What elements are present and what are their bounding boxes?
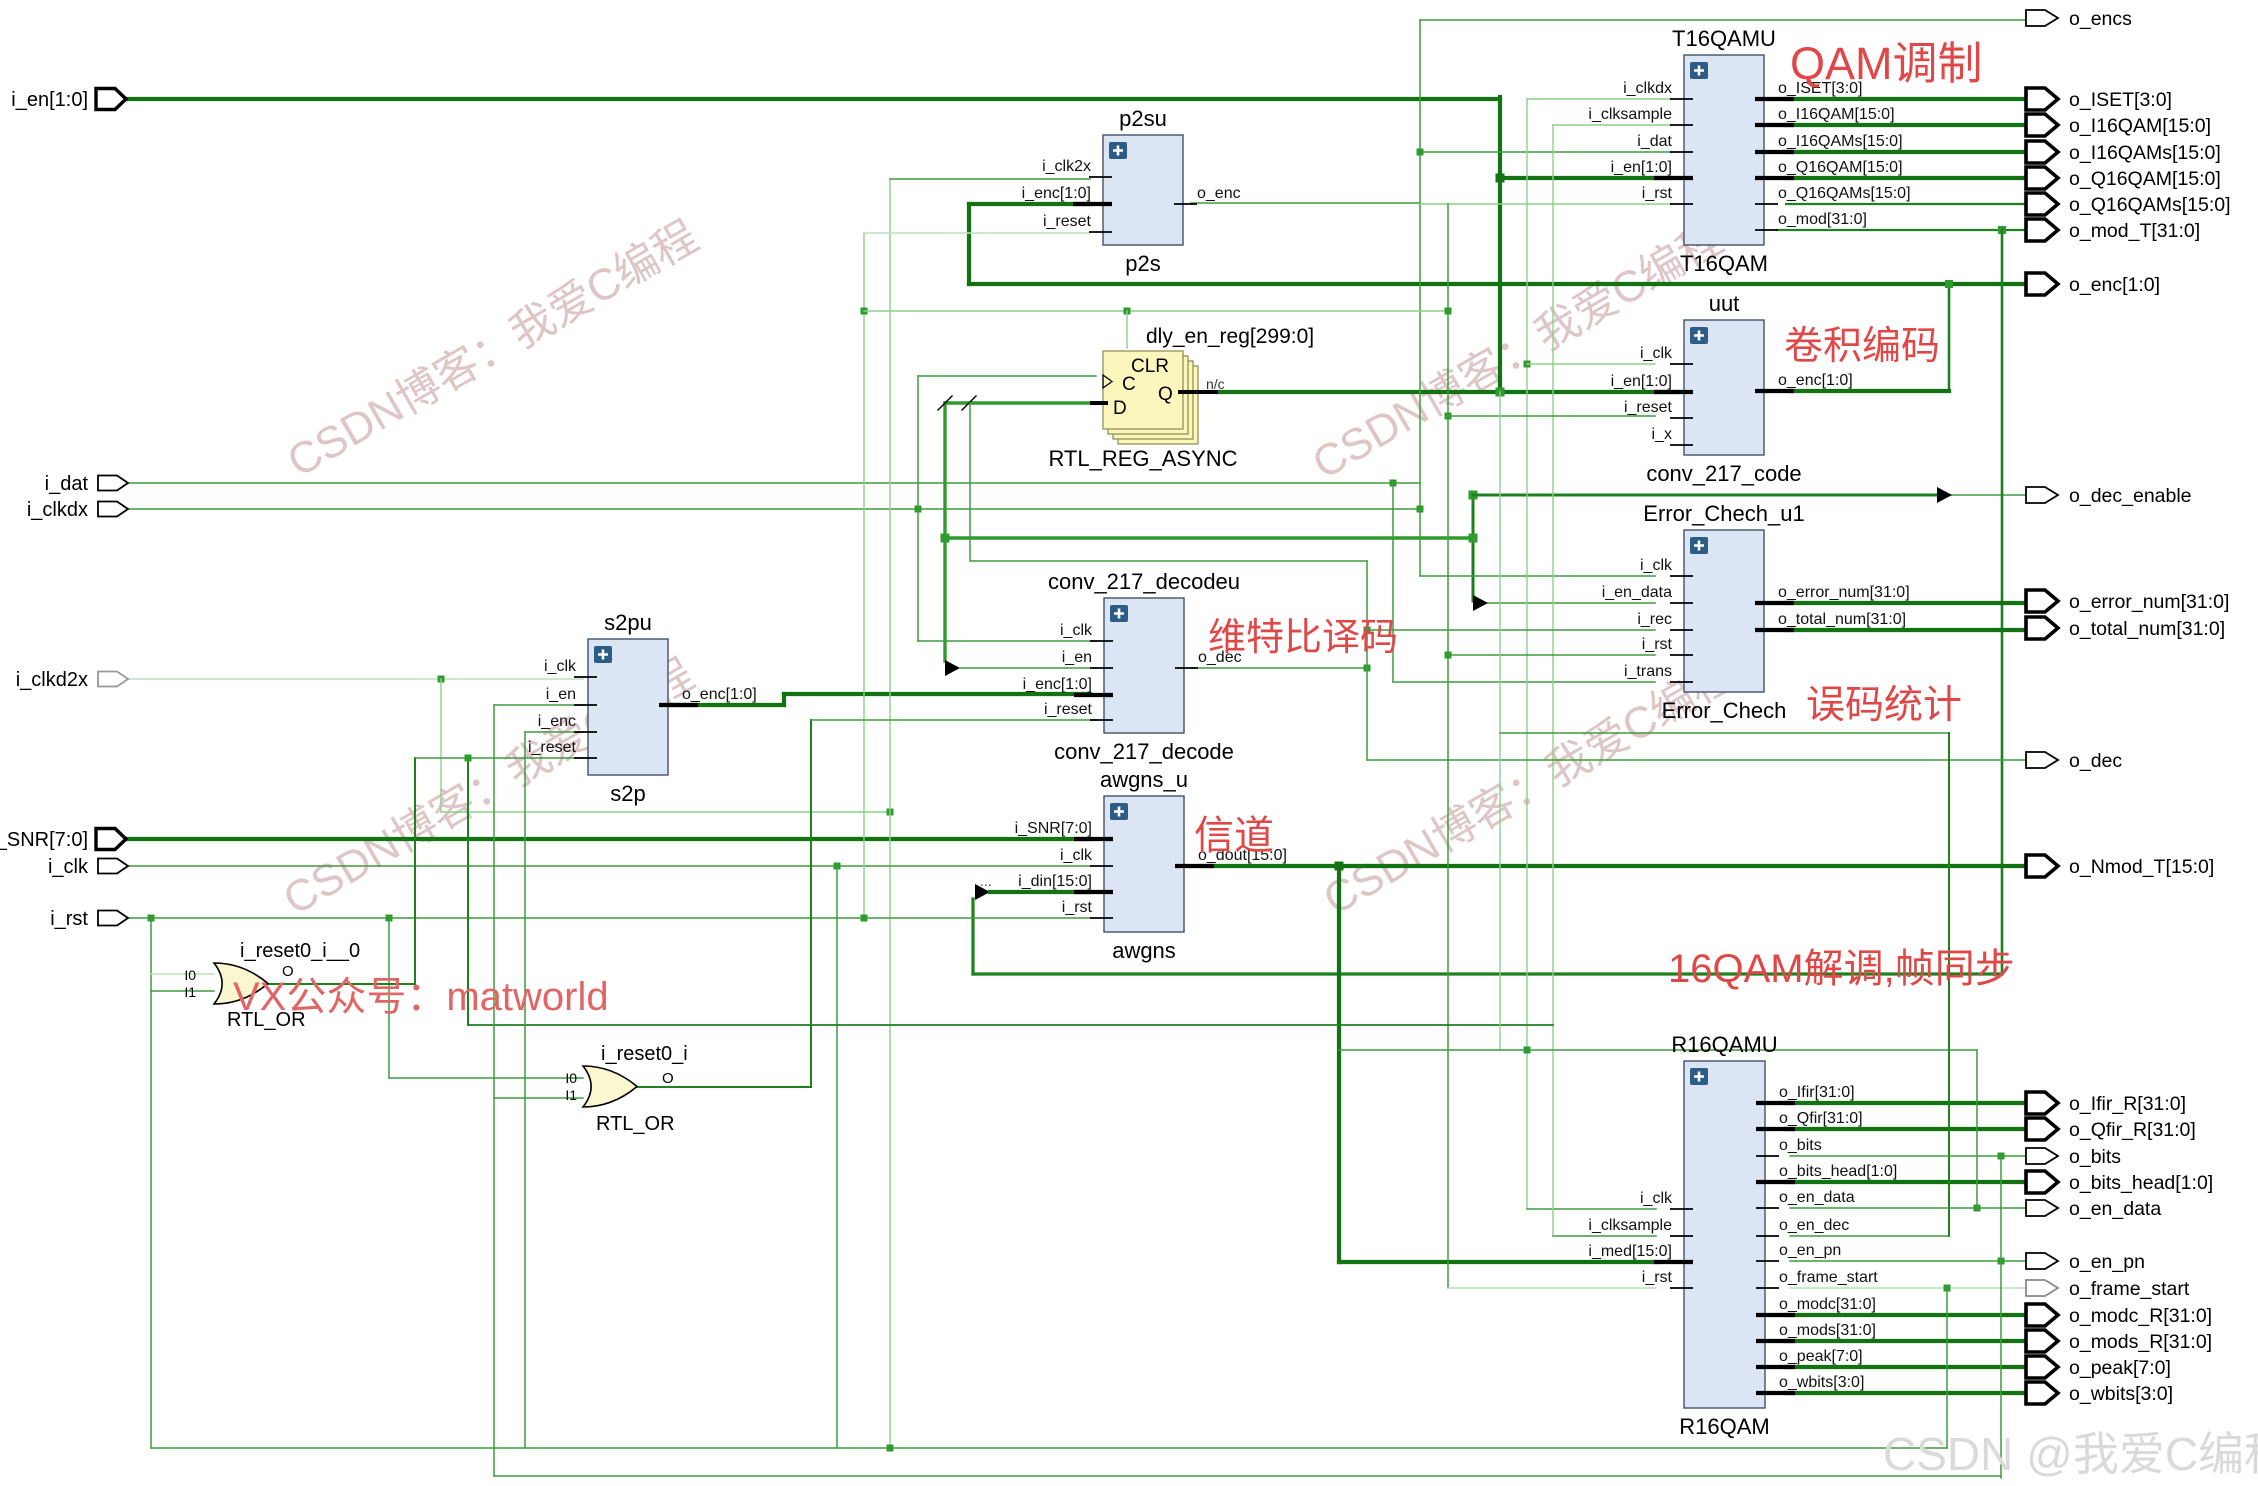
wire x494 vertical [493, 705, 495, 1476]
svg-text:p2s: p2s [1125, 251, 1160, 276]
svg-text:i_enc[1:0]: i_enc[1:0] [1022, 185, 1091, 202]
wire vertical x1420 [1419, 20, 1421, 576]
wire RTL_OR2 O [637, 1086, 811, 1088]
svg-text:i_clkd2x: i_clkd2x [16, 669, 88, 691]
junction en [941, 534, 950, 543]
wire o_total_num [1786, 628, 2026, 632]
svg-text:...: ... [980, 873, 992, 889]
svg-text:Q: Q [1158, 384, 1173, 405]
output port o_Qfir_R[31:0] [2026, 1118, 2196, 1141]
svg-text:i_rst: i_rst [1642, 1269, 1673, 1286]
svg-text:T16QAMU: T16QAMU [1672, 26, 1776, 51]
wire to Error_Chech i_en_data [1480, 602, 1655, 604]
svg-text:i_clk2x: i_clk2x [1042, 158, 1091, 175]
svg-text:i_en: i_en [546, 686, 576, 703]
svg-text:s2p: s2p [610, 781, 645, 806]
junction o_dec [1364, 665, 1371, 672]
wire p2s o_enc [1191, 202, 1420, 204]
wire OR2 up [810, 720, 812, 1087]
svg-text:o_encs: o_encs [2069, 8, 2132, 30]
svg-text:i_med[15:0]: i_med[15:0] [1588, 1243, 1672, 1260]
wire o_encs [1420, 19, 2027, 21]
output port o_Ifir_R[31:0] [2026, 1092, 2186, 1115]
output port o_Nmod_T[15:0] [2026, 855, 2214, 878]
wire o_mod from T16QAM [1777, 229, 2026, 231]
block uut conv_217_code [1611, 291, 1853, 486]
svg-text:o_enc[1:0]: o_enc[1:0] [2069, 274, 2160, 296]
wire to RTL_OR I0 [151, 973, 214, 975]
wire i_clkdx [126, 508, 1420, 510]
block T16QAMU [1588, 26, 1910, 276]
svg-text:o_total_num[31:0]: o_total_num[31:0] [1778, 611, 1906, 628]
svg-text:D: D [1113, 398, 1127, 419]
svg-text:o_peak[7:0]: o_peak[7:0] [1779, 1348, 1863, 1365]
junction i_rst 2 [386, 915, 393, 922]
svg-text:o_mod[31:0]: o_mod[31:0] [1778, 211, 1867, 228]
svg-text:o_bits: o_bits [2069, 1146, 2121, 1168]
svg-text:o_en_data: o_en_data [2069, 1198, 2161, 1220]
svg-text:i_rst: i_rst [1642, 185, 1673, 202]
junction en2 [1469, 534, 1478, 543]
svg-text:o_wbits[3:0]: o_wbits[3:0] [1779, 1374, 1864, 1391]
wire i_clk [126, 865, 1090, 867]
wire reset horizontal [864, 310, 1448, 312]
junction clk2x [887, 809, 894, 816]
wire tap vertical [969, 403, 971, 561]
wire to R16QAM i_clk [1527, 1208, 1656, 1210]
svg-text:o_mods[31:0]: o_mods[31:0] [1779, 1322, 1876, 1339]
svg-text:o_Ifir_R[31:0]: o_Ifir_R[31:0] [2069, 1093, 2186, 1115]
svg-text:i_dat: i_dat [45, 473, 89, 495]
wire clk vertical x918 [917, 376, 919, 641]
wire i_rst vertical x389 [388, 918, 390, 1078]
arrow into conv_217_decode i_en [945, 660, 960, 676]
wire x1949 vertical [1948, 733, 1950, 1236]
wire mod loop bottom [973, 972, 2002, 975]
svg-text:conv_217_code: conv_217_code [1646, 461, 1801, 486]
wire to T16QAM i_clkdx [1527, 98, 1671, 100]
svg-text:i_clkdx: i_clkdx [27, 499, 88, 521]
svg-text:i_clksample: i_clksample [1588, 106, 1672, 123]
svg-text:卷积编码: 卷积编码 [1784, 325, 1940, 368]
wire o_I16QAMs [1786, 150, 2026, 154]
wire x1500 light vertical [1499, 392, 1501, 1050]
junction i_en/uut [1496, 388, 1505, 397]
svg-text:Error_Chech: Error_Chech [1662, 698, 1787, 723]
wire to s2p i_reset [415, 757, 583, 759]
svg-text:o_error_num[31:0]: o_error_num[31:0] [1778, 584, 1910, 601]
wire vertical x1553 [1552, 125, 1554, 1236]
svg-text:o_mod_T[31:0]: o_mod_T[31:0] [2069, 220, 2200, 242]
wire to T16QAM i_rst [1419, 203, 1671, 205]
wire to o_dec port [1367, 759, 2026, 761]
wire to uut i_en [1500, 390, 1676, 394]
wire y1050 [1339, 1049, 1977, 1051]
wire o_en_pn [1790, 1260, 2026, 1262]
arrow o_dec_enable [1937, 487, 1952, 503]
wire en distribution [945, 536, 1473, 539]
block s2pu [528, 610, 757, 806]
junction i_clkd2x [438, 676, 445, 683]
or-gate RTL_OR i_reset0_i__0 [214, 963, 268, 1004]
wire o_dec from decoder [1191, 667, 1367, 669]
wire reset vertical x864 [863, 233, 865, 919]
svg-text:o_enc[1:0]: o_enc[1:0] [682, 686, 757, 703]
wire clkd2x horizontal [441, 811, 890, 813]
wire o_mod vertical down [2001, 230, 2004, 974]
wire to T16QAM i_clksample [1553, 124, 1671, 126]
wire i_SNR bus [126, 837, 1090, 841]
output port o_encs [2026, 8, 2132, 30]
svg-text:i_SNR[7:0]: i_SNR[7:0] [1015, 820, 1092, 837]
svg-text:信道: 信道 [1194, 814, 1274, 858]
wire i_en[1:0] bus from input port [126, 97, 1500, 101]
svg-text:QAM调制: QAM调制 [1790, 38, 1983, 89]
wire to conv_217_decode i_en [960, 667, 1096, 669]
svg-text:o_modc[31:0]: o_modc[31:0] [1779, 1296, 1876, 1313]
svg-text:i_dat: i_dat [1637, 133, 1672, 150]
wire to T16QAM i_dat [1420, 151, 1671, 153]
wire o_mods [1786, 1339, 2026, 1343]
junction rail1 [887, 1445, 894, 1452]
svg-text:o_I16QAM[15:0]: o_I16QAM[15:0] [1778, 106, 1895, 123]
junction i_rec [1364, 627, 1371, 634]
wire i_clkd2x [126, 678, 583, 680]
svg-text:dly_en_reg[299:0]: dly_en_reg[299:0] [1146, 325, 1314, 348]
input port i_clk [48, 856, 128, 878]
output port o_dec_enable [2026, 485, 2192, 507]
or-gate RTL_OR i_reset0_i [583, 1066, 637, 1107]
svg-text:o_Q16QAM[15:0]: o_Q16QAM[15:0] [1778, 159, 1903, 176]
svg-text:i_reset0_i__0: i_reset0_i__0 [240, 940, 360, 962]
svg-text:uut: uut [1709, 291, 1740, 316]
wire to p2su i_reset [864, 232, 1090, 234]
svg-text:o_wbits[3:0]: o_wbits[3:0] [2069, 1383, 2173, 1405]
wire x2001 lower vertical [2000, 1156, 2002, 1478]
svg-text:o_en_pn: o_en_pn [2069, 1251, 2145, 1273]
svg-text:awgns: awgns [1112, 938, 1176, 963]
wire clkd2x vertical [440, 679, 442, 812]
wire reset vertical x1448 [1447, 204, 1449, 1288]
svg-text:T16QAM: T16QAM [1680, 251, 1768, 276]
svg-text:p2su: p2su [1119, 106, 1167, 131]
wire o_dec vertical [1366, 561, 1368, 760]
svg-text:i_enc: i_enc [538, 713, 576, 730]
wire s2p o_enc [670, 703, 784, 707]
svg-text:o_enc: o_enc [1197, 185, 1241, 202]
wire o_frame_start [1790, 1287, 2026, 1289]
svg-text:_SNR[7:0]: _SNR[7:0] [0, 829, 88, 851]
svg-text:i_clk: i_clk [48, 856, 89, 878]
svg-text:I1: I1 [184, 984, 196, 1000]
junction o_dout [1335, 862, 1344, 871]
wire to conv_217_decode i_enc [784, 692, 1090, 696]
svg-text:o_enc[1:0]: o_enc[1:0] [1778, 372, 1853, 389]
junction CLR [1124, 308, 1131, 315]
wire o_error_num [1786, 601, 2026, 605]
wire to RTL_OR2 I1 [494, 1097, 583, 1099]
svg-text:conv_217_decode: conv_217_decode [1054, 739, 1234, 764]
output port o_error_num[31:0] [2026, 590, 2229, 613]
svg-text:i_clkdx: i_clkdx [1623, 80, 1672, 97]
svg-text:o_en_pn: o_en_pn [1779, 1242, 1841, 1259]
wire o_Q16QAMs [1786, 203, 2026, 205]
svg-text:o_mods_R[31:0]: o_mods_R[31:0] [2069, 1331, 2212, 1353]
wire to R16QAM i_med [1339, 1260, 1656, 1264]
wire o_bits_head [1786, 1180, 2026, 1184]
svg-text:i_en[1:0]: i_en[1:0] [11, 89, 88, 111]
svg-text:o_Qfir_R[31:0]: o_Qfir_R[31:0] [2069, 1119, 2196, 1141]
svg-text:o_bits_head[1:0]: o_bits_head[1:0] [2069, 1172, 2213, 1194]
junction awgns rst [861, 915, 868, 922]
svg-text:o_total_num[31:0]: o_total_num[31:0] [2069, 618, 2225, 640]
svg-text:i_reset: i_reset [1044, 701, 1093, 718]
wire enc vertical [967, 204, 971, 284]
wire i_en vertical [1498, 97, 1502, 392]
wire RTL_OR O [268, 983, 415, 985]
svg-text:i_clk: i_clk [1060, 622, 1093, 639]
junction x1527 [1524, 1047, 1531, 1054]
svg-text:o_bits: o_bits [1779, 1137, 1822, 1154]
wire en vertical [943, 403, 946, 661]
wire i_clk vertical [836, 866, 838, 1448]
input port i_rst [50, 908, 128, 930]
junction err rst [1445, 652, 1452, 659]
wire o_peak [1786, 1365, 2026, 1369]
wire enc vertical right [1948, 284, 1951, 391]
wire to conv_217_decode i_reset [811, 719, 1096, 721]
wire o_Ifir [1786, 1101, 2026, 1105]
wire to Error_Chech i_trans [1393, 681, 1655, 683]
wire o_modc [1786, 1313, 2026, 1317]
wire o_dout vertical [1337, 866, 1341, 1262]
svg-text:i_clk: i_clk [544, 658, 577, 675]
wire to s2p i_en [494, 704, 583, 706]
junction i_clkdx mid [915, 506, 922, 513]
output port o_Q16QAM[15:0] [2026, 167, 2221, 190]
svg-text:C: C [1122, 374, 1136, 395]
output port o_Q16QAMs[15:0] [2026, 193, 2231, 216]
wire to Error_Chech i_rec [1367, 629, 1655, 631]
junction uut reset [1445, 413, 1452, 420]
wire to uut i_reset [1448, 415, 1655, 417]
wire o_I16QAM [1786, 123, 2026, 127]
wire en vertical to error check [1472, 493, 1475, 601]
svg-text:i_din[15:0]: i_din[15:0] [1018, 873, 1092, 890]
svg-text:O: O [662, 1070, 674, 1087]
wire o_dout to o_Nmod_T [1201, 864, 2026, 868]
svg-text:o_Ifir[31:0]: o_Ifir[31:0] [1779, 1084, 1855, 1101]
input port i_en[1:0] [11, 89, 126, 112]
wire o_Qfir [1786, 1127, 2026, 1131]
input port i_clkd2x [16, 669, 128, 691]
svg-text:i_enc[1:0]: i_enc[1:0] [1023, 676, 1092, 693]
output port o_mod_T[31:0] [2026, 219, 2200, 242]
arrow i_en_data [1473, 595, 1488, 611]
output port o_frame_start [2026, 1278, 2190, 1300]
wire i_dat vertical [1392, 483, 1394, 682]
junction reset CLR [861, 308, 868, 315]
junction enc [1945, 280, 1953, 288]
block p2su [1022, 106, 1241, 276]
block R16QAMU [1588, 1032, 1897, 1439]
wire branch to T16QAM i_en [1500, 176, 1671, 180]
wire x525 vertical [524, 732, 526, 1448]
svg-text:conv_217_decodeu: conv_217_decodeu [1048, 569, 1240, 594]
svg-text:VX公众号：matworld: VX公众号：matworld [233, 975, 609, 1019]
wire reset2 horizontal [468, 1024, 1553, 1026]
svg-text:o_Qfir[31:0]: o_Qfir[31:0] [1779, 1110, 1863, 1127]
wire o_wbits [1786, 1391, 2026, 1395]
output port o_en_pn [2026, 1251, 2145, 1273]
svg-text:CLR: CLR [1131, 356, 1169, 377]
svg-text:16QAM解调,帧同步: 16QAM解调,帧同步 [1668, 947, 2015, 991]
svg-text:I0: I0 [184, 967, 196, 983]
svg-text:o_dec_enable: o_dec_enable [2069, 485, 2192, 507]
input port i_dat [45, 473, 128, 495]
junction reset v [1445, 308, 1452, 315]
wire to uut i_clk [1527, 363, 1655, 365]
svg-text:o_I16QAMs[15:0]: o_I16QAMs[15:0] [1778, 133, 1903, 150]
output port o_total_num[31:0] [2026, 617, 2225, 640]
svg-text:o_Q16QAM[15:0]: o_Q16QAM[15:0] [2069, 168, 2221, 190]
wire o_en_dec [1790, 1235, 1949, 1237]
svg-text:i_reset0_i: i_reset0_i [601, 1043, 688, 1065]
svg-text:i_rec: i_rec [1637, 611, 1672, 628]
wire i_rst [126, 917, 1090, 919]
output port o_I16QAMs[15:0] [2026, 141, 2221, 164]
svg-text:o_ISET[3:0]: o_ISET[3:0] [2069, 89, 2172, 111]
svg-text:i_clk: i_clk [1640, 557, 1673, 574]
svg-text:o_modc_R[31:0]: o_modc_R[31:0] [2069, 1305, 2212, 1327]
junction i_dat feed [1417, 149, 1424, 156]
wire from dly_en_reg Q [1218, 390, 1500, 394]
wire to p2su i_clk2x [890, 178, 1090, 180]
wire vertical x890 [889, 179, 891, 1448]
wire to dly_en_reg D [945, 401, 1094, 404]
wire o_dec upper branch [971, 560, 1367, 562]
junction i_dat [1390, 480, 1397, 487]
junction o_en_pn [1998, 1258, 2005, 1265]
svg-text:R16QAM: R16QAM [1679, 1414, 1769, 1439]
junction s2p reset [465, 755, 472, 762]
svg-text:o_bits_head[1:0]: o_bits_head[1:0] [1779, 1163, 1897, 1180]
wire o_ISET [1786, 97, 2026, 101]
svg-text:o_frame_start: o_frame_start [2069, 1278, 2190, 1300]
wire bottom rail 2 [494, 1475, 2001, 1477]
svg-text:i_reset: i_reset [1043, 213, 1092, 230]
output port o_enc[1:0] [2026, 273, 2160, 296]
wire to Error_Chech i_clk [1420, 575, 1655, 577]
svg-text:i_rst: i_rst [1642, 636, 1673, 653]
svg-text:误码统计: 误码统计 [1806, 684, 1962, 727]
wire to RTL_OR2 I0 [389, 1077, 583, 1079]
wire to s2p i_enc [525, 731, 583, 733]
output port o_mods_R[31:0] [2026, 1330, 2212, 1353]
svg-text:RTL_REG_ASYNC: RTL_REG_ASYNC [1048, 446, 1237, 471]
output port o_dec [2026, 750, 2122, 772]
input port i_clkdx [27, 499, 128, 521]
svg-text:i_clksample: i_clksample [1588, 1217, 1672, 1234]
svg-text:i_clk: i_clk [1640, 345, 1673, 362]
svg-text:I1: I1 [565, 1087, 577, 1103]
wire to R16QAM i_rst [1448, 1287, 1656, 1289]
junction uut clk [1524, 361, 1531, 368]
wire to dly_en_reg C [918, 375, 1096, 377]
wire mod loop up [971, 899, 974, 974]
svg-text:o_Nmod_T[15:0]: o_Nmod_T[15:0] [2069, 856, 2214, 878]
wire x1977 vertical [1976, 1050, 1978, 1208]
svg-text:i_trans: i_trans [1624, 663, 1672, 680]
svg-text:R16QAMU: R16QAMU [1671, 1032, 1777, 1057]
svg-text:CSDN @我爱C编程: CSDN @我爱C编程 [1883, 1428, 2258, 1480]
svg-text:i_en[1:0]: i_en[1:0] [1611, 159, 1672, 176]
wire i_dat [126, 482, 1420, 484]
wire to RTL_OR I1 [151, 990, 214, 992]
output port o_wbits[3:0] [2026, 1382, 2173, 1405]
svg-text:o_Q16QAMs[15:0]: o_Q16QAMs[15:0] [2069, 194, 2231, 216]
svg-text:i_reset: i_reset [1624, 399, 1673, 416]
junction i_clk [834, 863, 841, 870]
svg-text:I0: I0 [565, 1070, 577, 1086]
svg-text:i_en_data: i_en_data [1602, 584, 1672, 601]
svg-text:o_en_data: o_en_data [1779, 1189, 1855, 1206]
wire i_rst vertical x151 [150, 918, 152, 1448]
block conv_217_decodeu [1023, 569, 1242, 764]
svg-text:o_I16QAM[15:0]: o_I16QAM[15:0] [2069, 115, 2211, 137]
wire OR1 up [414, 758, 416, 984]
svg-text:Error_Chech_u1: Error_Chech_u1 [1643, 501, 1804, 526]
svg-text:RTL_OR: RTL_OR [596, 1113, 675, 1135]
output port o_bits_head[1:0] [2026, 1171, 2213, 1194]
arrow into awgns i_din [975, 884, 990, 900]
block awgns_u [1015, 767, 1287, 963]
junction i_en/T16QAM [1496, 174, 1505, 183]
wire o_dec_enable [1473, 494, 1940, 497]
svg-text:o_frame_start: o_frame_start [1779, 1269, 1878, 1286]
wire from uut o_enc [1790, 389, 1949, 393]
svg-text:i_en: i_en [1062, 649, 1092, 666]
svg-text:i_rst: i_rst [1062, 899, 1093, 916]
svg-text:s2pu: s2pu [604, 610, 652, 635]
svg-text:i_reset: i_reset [528, 739, 577, 756]
wire y733 [1500, 732, 1949, 734]
wire to conv_217_decode i_clk [918, 640, 1096, 642]
wire awgns i_din [990, 890, 1090, 894]
output port o_I16QAM[15:0] [2026, 114, 2211, 137]
wire o_en_data [1790, 1207, 2026, 1209]
wire to R16QAM i_clksample [1553, 1235, 1656, 1237]
junction dec_enable [1469, 491, 1478, 500]
svg-text:i_en[1:0]: i_en[1:0] [1611, 373, 1672, 390]
wire reset2 vertical x468 [467, 758, 469, 1025]
wire s2p o_enc step [782, 694, 786, 705]
wire enc bus to p2su i_enc [969, 202, 1090, 206]
junction o_en_data [1974, 1205, 1981, 1212]
junction o_mod [1998, 226, 2006, 234]
svg-text:i_x: i_x [1652, 426, 1672, 443]
svg-text:o_I16QAMs[15:0]: o_I16QAMs[15:0] [2069, 142, 2221, 164]
output port o_bits [2026, 1146, 2121, 1168]
svg-text:o_en_dec: o_en_dec [1779, 1217, 1849, 1234]
wire to Error_Chech i_rst [1448, 654, 1655, 656]
wire o_bits [1790, 1155, 2026, 1157]
wire enc bus to o_enc port [969, 282, 2026, 286]
input port i_SNR[7:0] [0, 829, 126, 852]
junction o_bits [1998, 1153, 2005, 1160]
svg-text:o_error_num[31:0]: o_error_num[31:0] [2069, 591, 2229, 613]
svg-text:o_dec: o_dec [2069, 750, 2122, 772]
